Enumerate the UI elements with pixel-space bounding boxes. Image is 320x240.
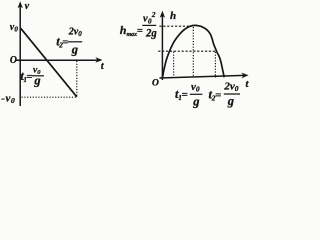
svg-text:2g: 2g <box>145 26 157 40</box>
label t2 = 2v0/g (right) <box>209 80 241 107</box>
svg-text:h: h <box>170 10 176 22</box>
h-t parabola <box>162 25 224 77</box>
dotted vertical at t2 (left graph) <box>76 61 78 97</box>
svg-text:g: g <box>192 94 199 108</box>
label t2 = 2v0/g (left) <box>56 26 82 56</box>
svg-text:-v0: -v0 <box>1 93 15 106</box>
svg-text:g: g <box>71 43 78 57</box>
svg-text:2v0: 2v0 <box>223 80 238 93</box>
svg-text:hmax=: hmax= <box>120 23 143 38</box>
right graph t-axis <box>160 73 249 79</box>
right graph h-axis <box>160 11 165 80</box>
svg-text:v0: v0 <box>10 22 19 34</box>
label t1 = v0/g (right) <box>175 81 202 108</box>
svg-text:t1=: t1= <box>175 87 188 102</box>
dashed horizontal at hmax level <box>159 25 191 27</box>
left graph v-axis <box>18 1 23 106</box>
dashed horizontal at h level <box>158 50 215 52</box>
svg-text:2v0: 2v0 <box>68 26 82 38</box>
svg-text:g: g <box>227 94 234 108</box>
svg-text:O: O <box>152 79 159 89</box>
dotted vertical right intersection <box>214 52 216 78</box>
svg-text:v02: v02 <box>143 11 156 26</box>
dotted vertical at peak t1 (right) <box>192 27 194 77</box>
label t1 = v0/g (left) <box>20 65 44 87</box>
svg-text:v: v <box>25 1 30 12</box>
v-t line <box>21 28 77 97</box>
svg-text:g: g <box>33 74 40 88</box>
dotted horizontal at -v0 <box>22 96 78 98</box>
label hmax = v0^2/2g <box>120 11 157 40</box>
left graph t-axis <box>16 57 103 63</box>
svg-text:t2=: t2= <box>209 87 222 102</box>
svg-text:t2=: t2= <box>56 34 68 49</box>
svg-text:O: O <box>10 55 17 66</box>
svg-text:t: t <box>246 79 250 90</box>
svg-text:v0: v0 <box>191 81 200 94</box>
svg-text:t1=: t1= <box>20 69 32 84</box>
svg-text:t: t <box>101 61 105 72</box>
dotted vertical left intersection <box>173 52 175 78</box>
